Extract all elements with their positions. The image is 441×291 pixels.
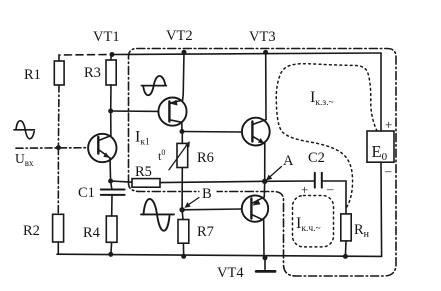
wire R1 to input node dash-dot: [57, 85, 60, 148]
battery E0: [367, 131, 394, 162]
resistor RH: [341, 214, 351, 241]
svg-text:+: +: [385, 117, 392, 132]
svg-text:VT3: VT3: [249, 29, 276, 45]
wire R2 to bottom rail: [57, 242, 59, 254]
resistor R4: [106, 216, 117, 242]
svg-text:+: +: [301, 182, 308, 197]
svg-text:B: B: [202, 186, 212, 202]
node B arrow: [187, 198, 200, 207]
transistor VT4: [242, 195, 268, 221]
resistor R5: [111, 181, 132, 182]
wire R5 to node A: [160, 181, 265, 182]
node A: [262, 179, 267, 184]
resistor R2: [53, 214, 64, 242]
wire bottom rail: [57, 254, 382, 256]
resistor R7: [181, 210, 184, 220]
wire R3 to VT1 collector node: [110, 85, 112, 111]
node input: [56, 145, 61, 150]
svg-text:VT4: VT4: [217, 265, 244, 281]
svg-text:A: A: [283, 153, 294, 169]
label B background: [200, 187, 217, 200]
dotted loop current Ike: [293, 196, 334, 247]
wire right vertical to E0 top: [380, 53, 382, 131]
svg-text:R7: R7: [197, 224, 214, 240]
wire node B to VT4 base: [182, 208, 242, 211]
capacitor C2: [314, 173, 316, 188]
wire top rail dashed left segment: [59, 55, 112, 62]
thermistor arrow t: [169, 143, 189, 170]
node A arrow: [268, 167, 282, 179]
sine symbol at node B output: [141, 213, 174, 215]
node B: [179, 207, 184, 212]
node VT3 rail: [263, 50, 268, 55]
svg-text:R2: R2: [23, 223, 40, 239]
svg-text:R4: R4: [83, 225, 101, 241]
wire input node to R2 dash-dot: [57, 148, 59, 215]
wire VT2 collector node to VT3 base: [182, 131, 242, 134]
node rail R7: [181, 254, 186, 259]
wire input line dash-dot: [16, 147, 88, 150]
wire E0 bottom to bottom-right corner: [380, 162, 383, 256]
svg-text:C2: C2: [308, 150, 325, 166]
wire R6 bottom to node B: [181, 168, 183, 210]
transistor VT1: [88, 134, 116, 162]
resistor R3: [110, 55, 112, 61]
enclosure dash-dot boundary: [129, 49, 397, 277]
svg-text:R3: R3: [84, 65, 101, 81]
resistor R6 thermistor: [181, 132, 183, 144]
node R3 base VT1: [108, 109, 113, 114]
node VT1 emitter: [108, 179, 113, 184]
svg-text:R6: R6: [197, 150, 214, 166]
svg-text:–: –: [326, 181, 334, 196]
node rail R4: [108, 252, 113, 257]
node VT1 rail: [110, 52, 115, 57]
node rail RH: [343, 254, 348, 259]
wire top rail solid: [112, 53, 381, 55]
svg-text:–: –: [384, 163, 392, 178]
svg-text:R5: R5: [135, 164, 152, 180]
ground: [264, 258, 266, 269]
svg-text:VT2: VT2: [166, 28, 193, 44]
dotted loop current Ikz: [276, 64, 377, 209]
transistor VT3: [242, 118, 270, 146]
resistor R1: [54, 61, 64, 85]
sine symbol input: [14, 129, 35, 131]
node rail ground: [263, 255, 268, 260]
capacitor C1: [111, 181, 112, 189]
node VT2 collector: [180, 129, 185, 134]
transistor VT2: [158, 98, 186, 126]
svg-text:C1: C1: [78, 185, 95, 201]
sine symbol at VT2: [142, 85, 167, 87]
node VT2 rail: [182, 50, 187, 55]
svg-text:R1: R1: [24, 67, 41, 83]
svg-text:VT1: VT1: [93, 29, 120, 45]
wire VT1 collector node to VT2 base: [111, 110, 159, 112]
